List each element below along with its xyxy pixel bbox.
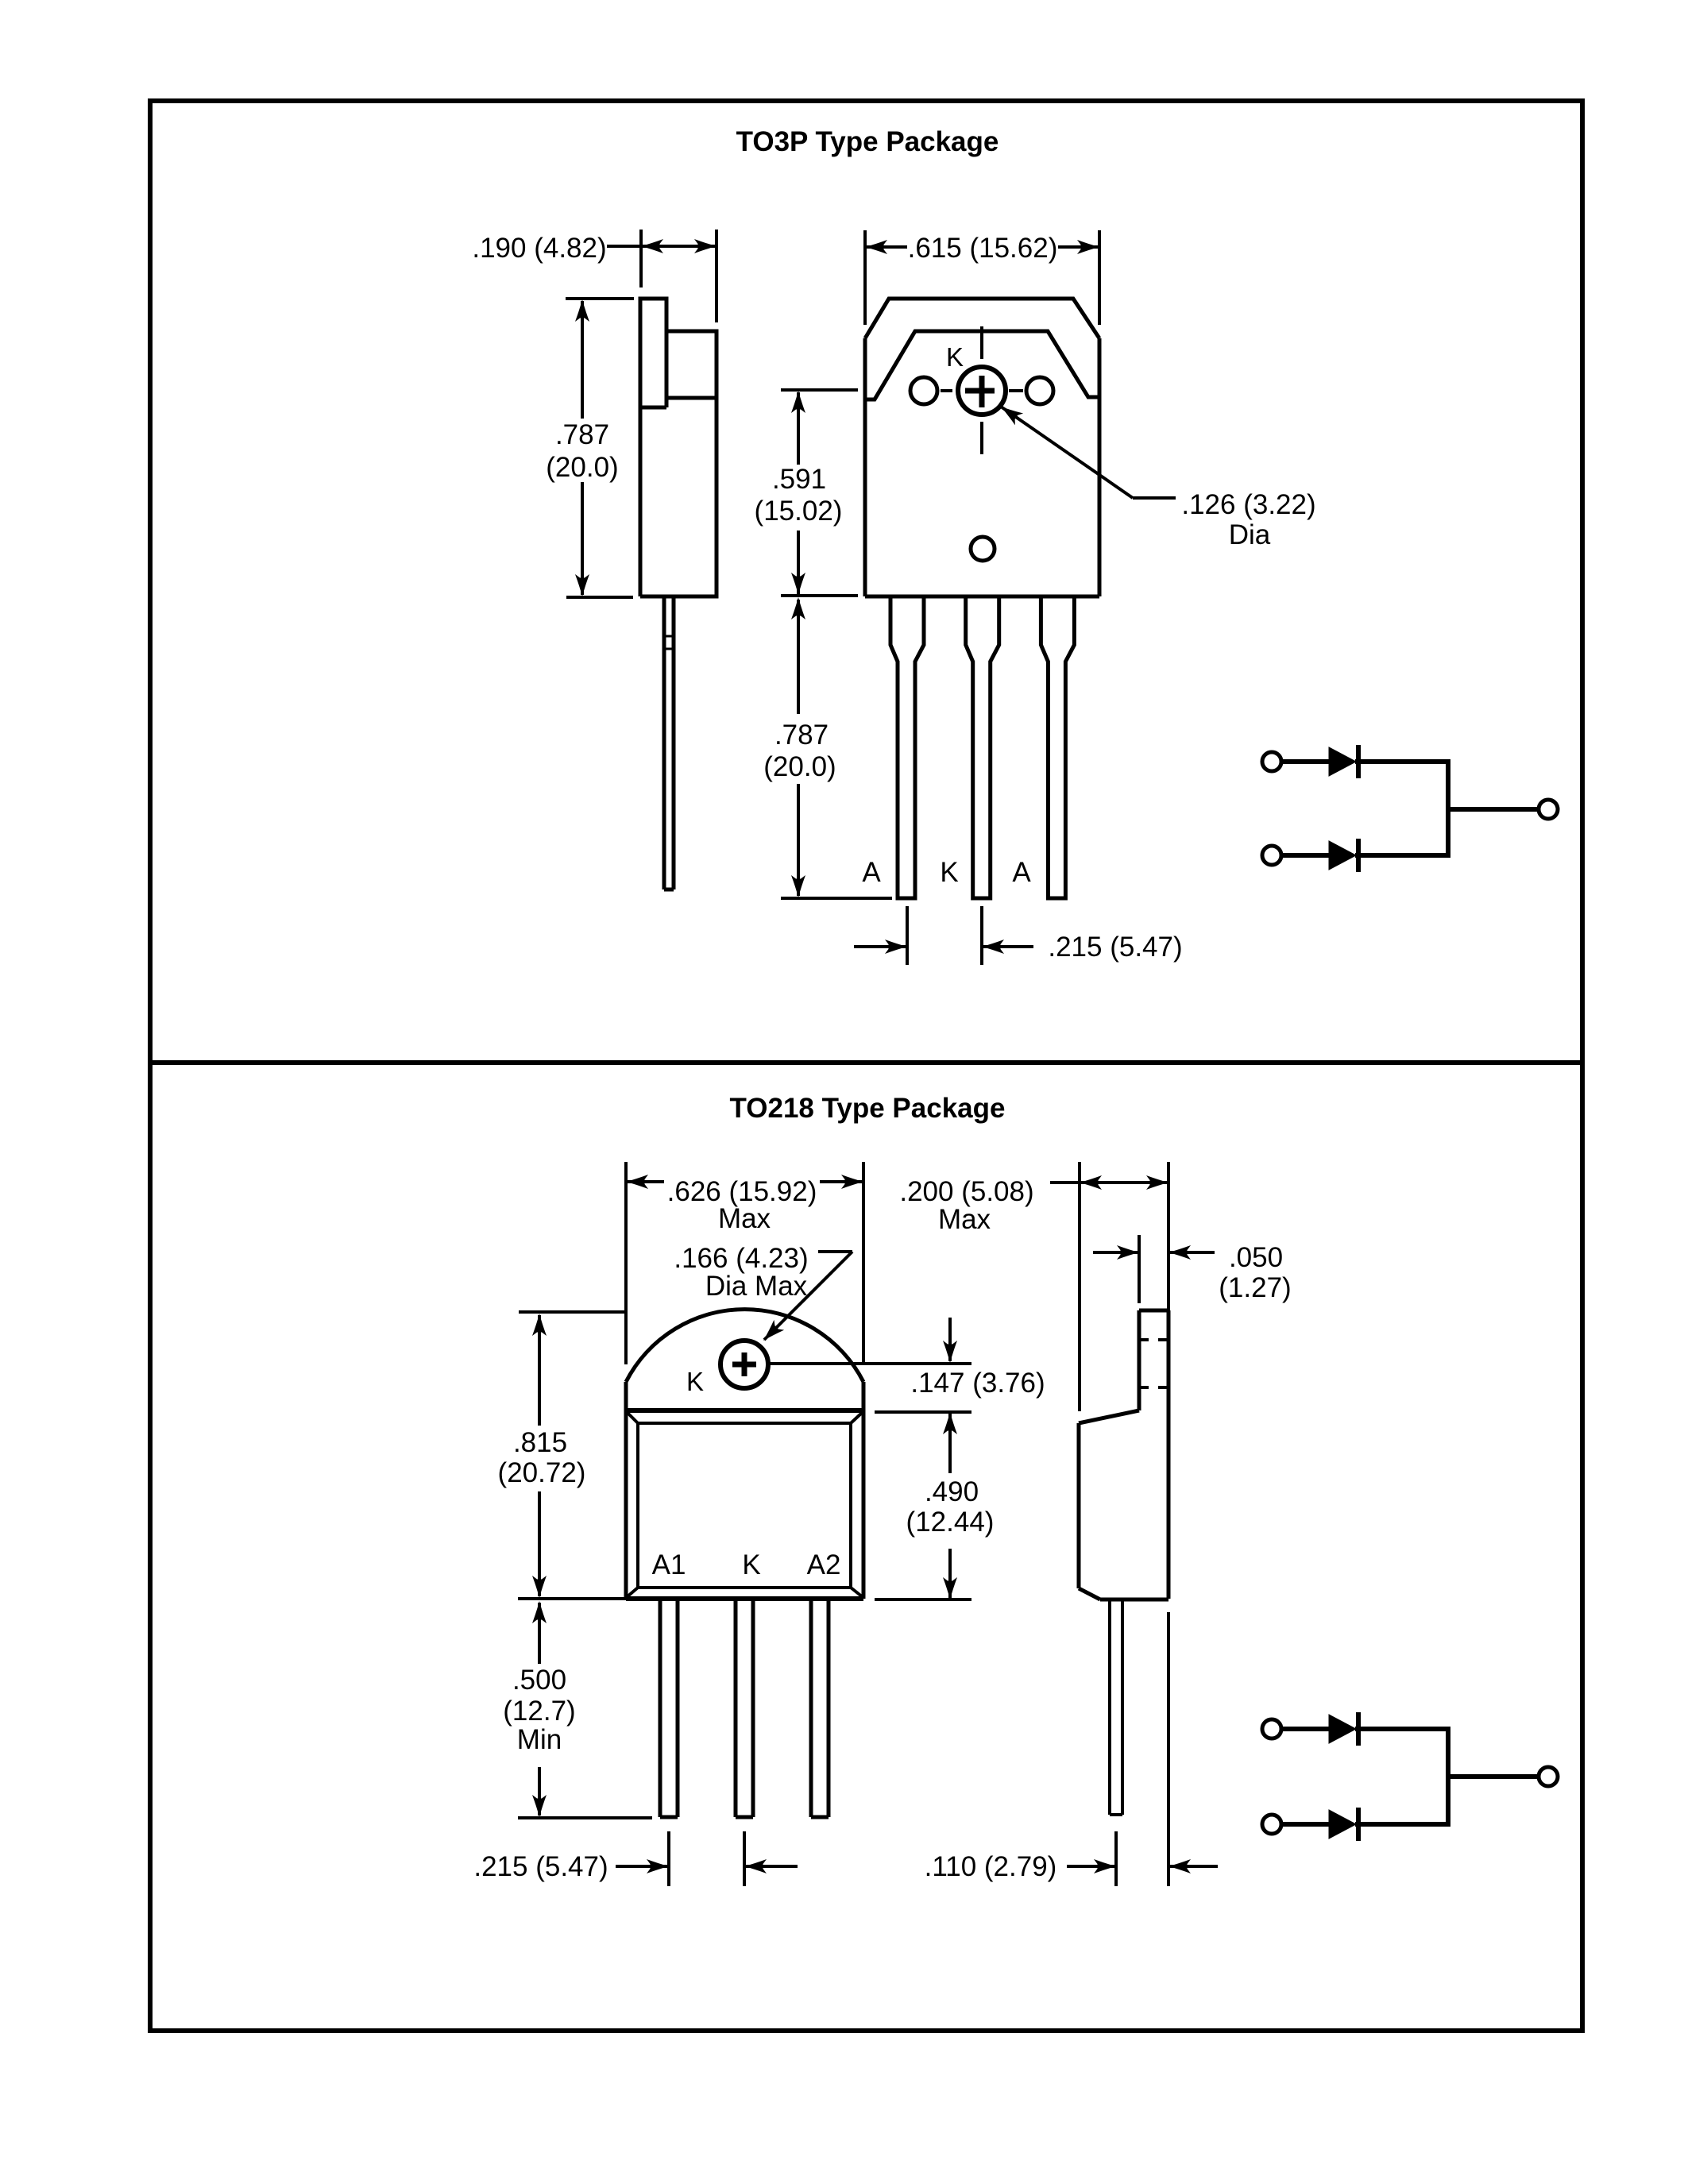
svg-text:.200 (5.08): .200 (5.08)	[899, 1176, 1033, 1207]
svg-text:Dia Max: Dia Max	[705, 1271, 808, 1302]
svg-text:.110 (2.79): .110 (2.79)	[925, 1851, 1057, 1882]
svg-text:.591: .591	[772, 464, 826, 495]
svg-text:.787: .787	[555, 419, 609, 450]
svg-text:TO218 Type Package: TO218 Type Package	[730, 1093, 1006, 1124]
svg-text:.490: .490	[925, 1476, 979, 1507]
svg-text:.815: .815	[513, 1427, 567, 1458]
svg-text:A1: A1	[652, 1549, 686, 1580]
svg-text:.787: .787	[774, 720, 829, 751]
svg-text:A2: A2	[807, 1549, 841, 1580]
svg-text:.215 (5.47): .215 (5.47)	[473, 1851, 608, 1882]
svg-text:(1.27): (1.27)	[1219, 1272, 1291, 1303]
svg-text:.050: .050	[1229, 1242, 1283, 1273]
svg-text:(20.72): (20.72)	[498, 1457, 586, 1488]
svg-text:.147 (3.76): .147 (3.76)	[910, 1368, 1045, 1399]
svg-text:K: K	[686, 1367, 704, 1396]
svg-text:(12.44): (12.44)	[906, 1507, 995, 1538]
svg-text:(15.02): (15.02)	[755, 496, 843, 527]
svg-text:Dia: Dia	[1229, 519, 1271, 550]
svg-text:(20.0): (20.0)	[546, 452, 618, 483]
svg-text:A: A	[862, 857, 881, 888]
svg-text:Max: Max	[938, 1204, 991, 1235]
svg-text:A: A	[1012, 857, 1031, 888]
svg-text:K: K	[940, 857, 958, 888]
svg-text:K: K	[742, 1549, 760, 1580]
svg-text:Min: Min	[517, 1724, 562, 1755]
svg-text:.615 (15.62): .615 (15.62)	[908, 233, 1058, 264]
svg-text:Max: Max	[718, 1203, 771, 1234]
svg-text:TO3P Type Package: TO3P Type Package	[736, 126, 999, 157]
svg-text:.500: .500	[512, 1665, 566, 1696]
svg-text:.215 (5.47): .215 (5.47)	[1048, 932, 1182, 963]
svg-text:K: K	[946, 342, 964, 372]
svg-text:.126 (3.22): .126 (3.22)	[1181, 489, 1315, 520]
svg-text:.190 (4.82): .190 (4.82)	[472, 233, 606, 264]
svg-text:(20.0): (20.0)	[763, 751, 836, 782]
svg-text:(12.7): (12.7)	[503, 1696, 575, 1727]
svg-text:.166 (4.23): .166 (4.23)	[674, 1243, 808, 1274]
